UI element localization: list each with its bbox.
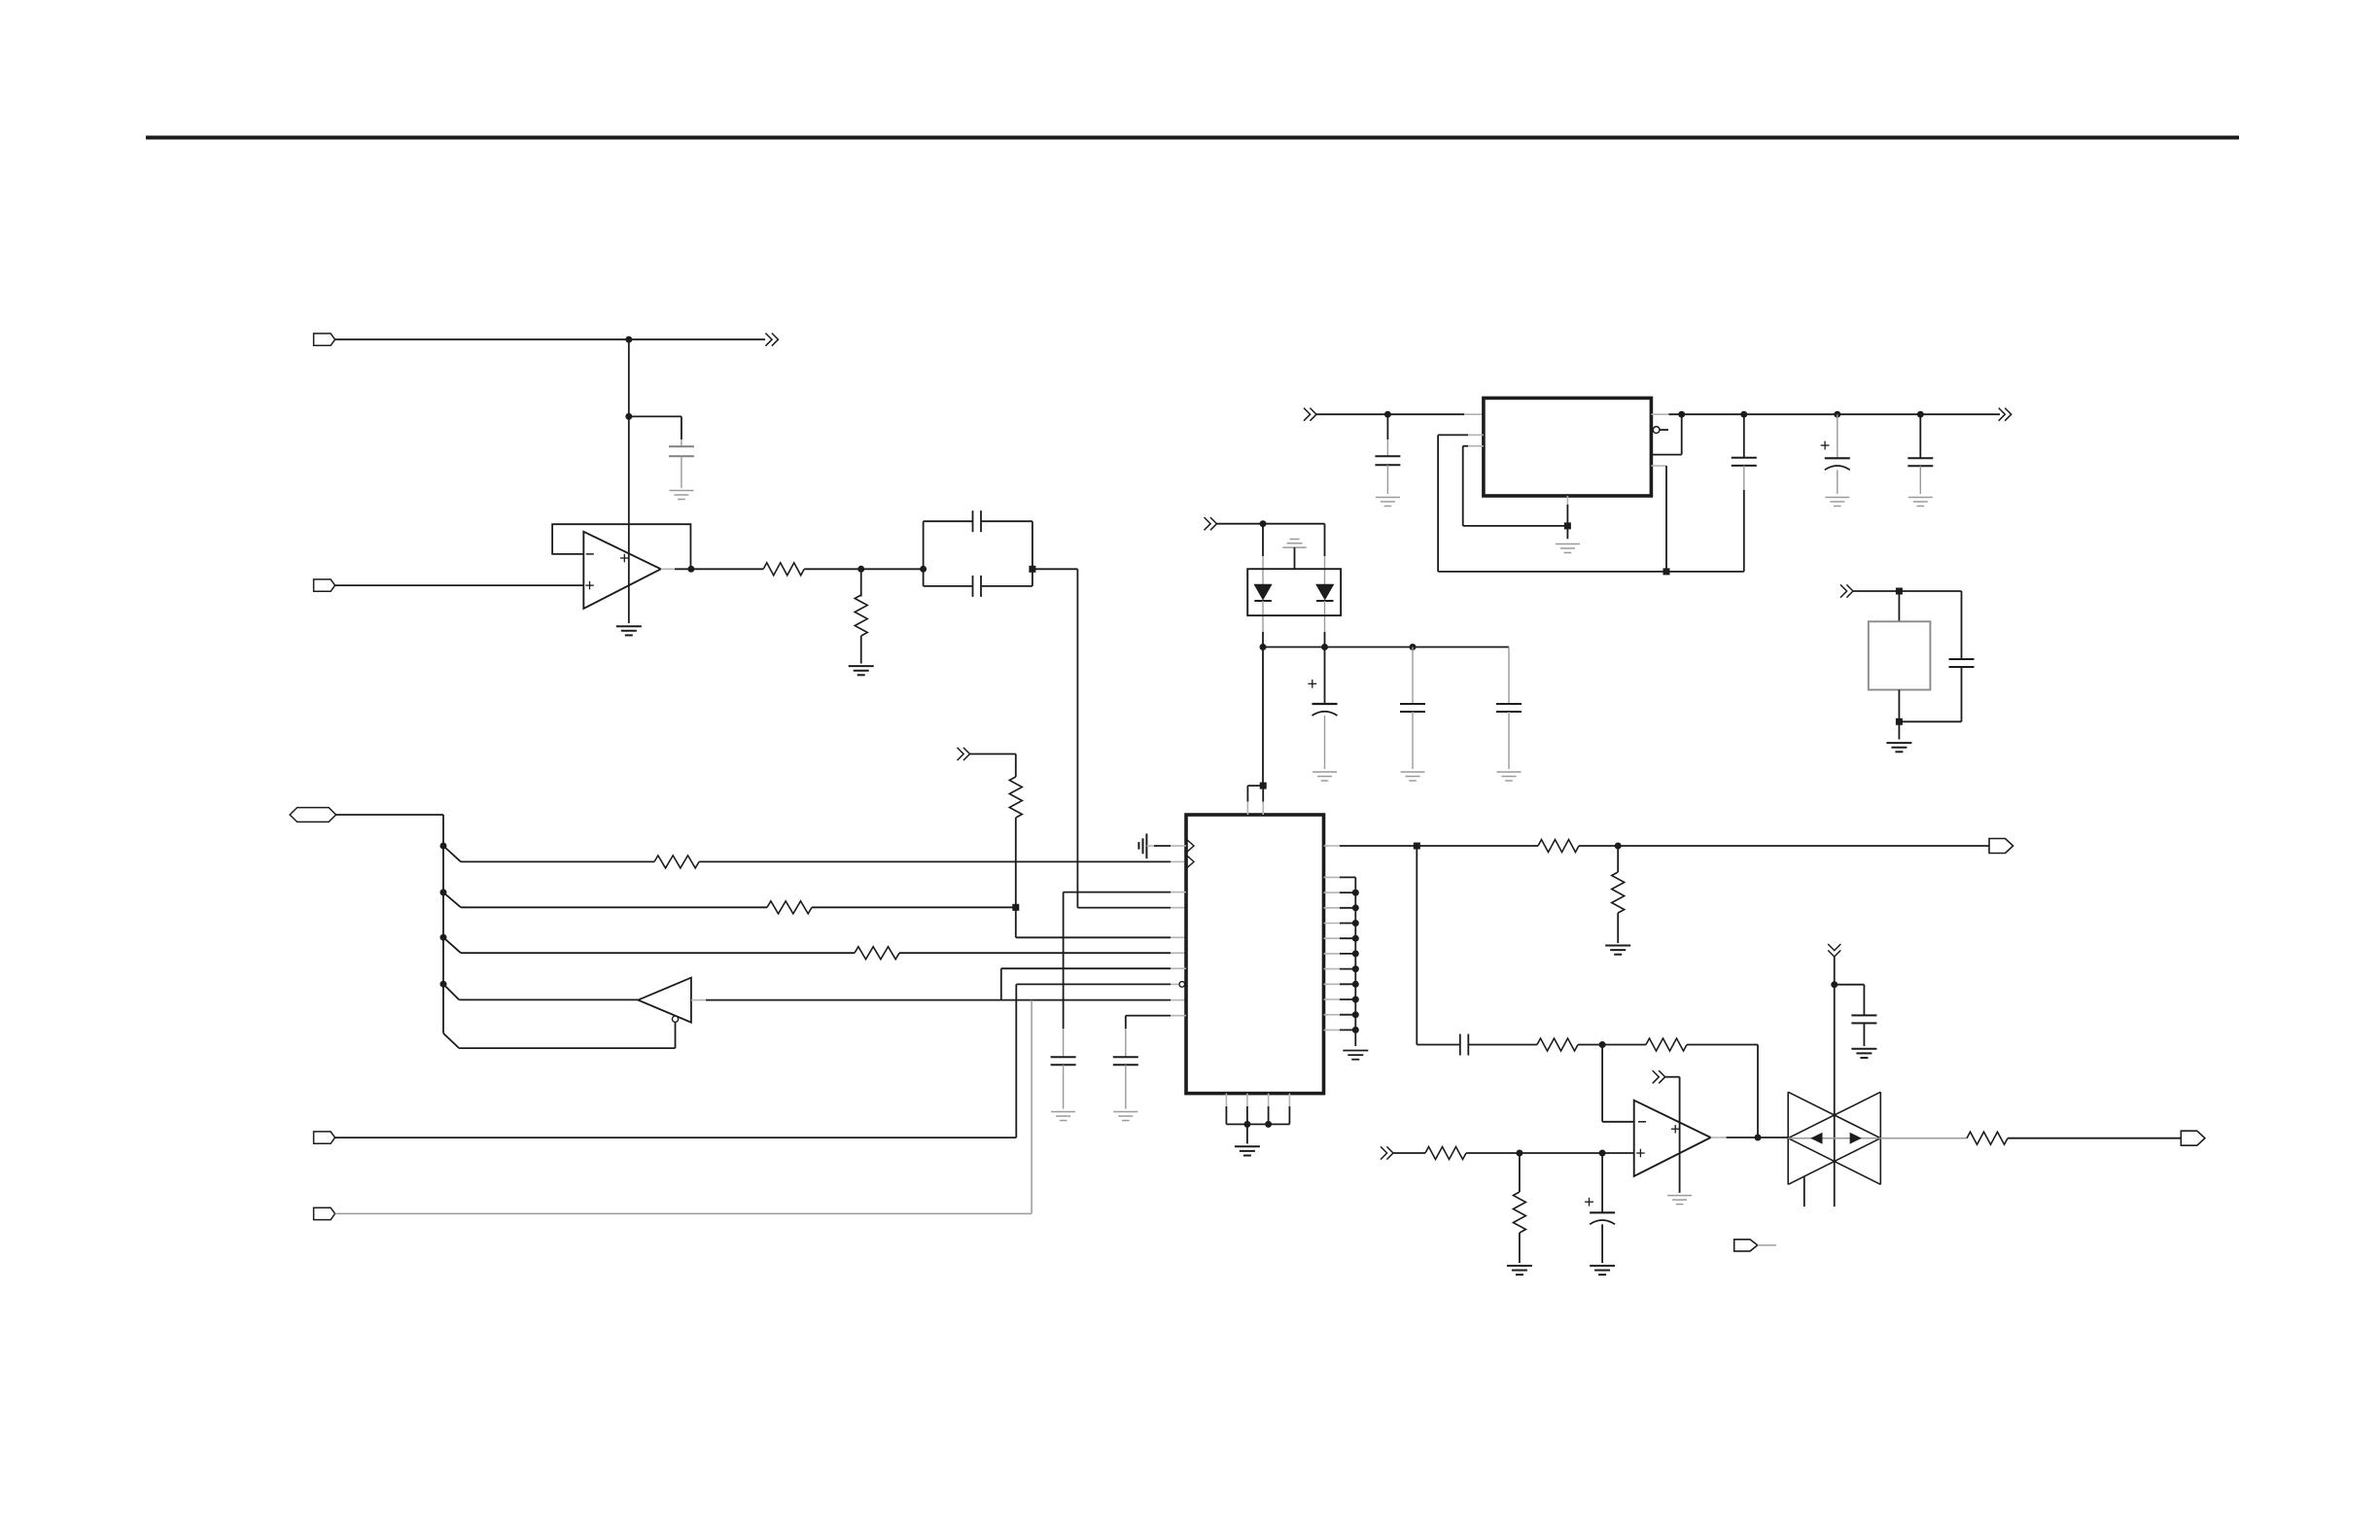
op-amp U5 <box>1634 1101 1711 1176</box>
wire <box>335 338 765 340</box>
wire (branch 4 / buffer output) <box>443 984 459 999</box>
capacitor C11 <box>1961 591 1963 659</box>
op-amp U1 <box>583 532 660 609</box>
node <box>1831 981 1837 988</box>
wire <box>1466 1152 1634 1154</box>
crystal Y1 <box>1869 621 1931 689</box>
resistor R9 <box>1537 1038 1578 1051</box>
connector J7 (output flag) <box>2181 1131 2205 1145</box>
wire <box>860 636 862 664</box>
enable bubble <box>672 1016 678 1022</box>
wire (IC pin 3 to C12) <box>1064 892 1171 893</box>
ground <box>1825 497 1849 499</box>
connector J4 (input flag) <box>314 1132 335 1143</box>
ground <box>1113 1111 1137 1113</box>
ground <box>1051 1111 1075 1113</box>
wire <box>1898 591 1900 621</box>
node <box>1896 588 1903 595</box>
wire <box>1578 1044 1646 1046</box>
wire (U1 output) <box>661 568 675 570</box>
wire <box>1617 913 1619 943</box>
wire <box>1393 1152 1425 1154</box>
off-page arrow (clock) <box>1840 584 1847 597</box>
off-page arrow (op-amp supply) <box>1653 1070 1660 1083</box>
capacitor C14 (series) <box>1459 1034 1461 1056</box>
resistor R11 <box>1425 1147 1466 1160</box>
resistor R1 <box>763 563 804 576</box>
ground (IC) <box>1235 1145 1260 1147</box>
ground <box>669 490 693 492</box>
wire (top supply pins) <box>1246 801 1248 815</box>
wire <box>1665 1076 1680 1078</box>
wire <box>1468 1044 1537 1046</box>
node <box>1384 411 1391 418</box>
resistor R6 <box>1009 777 1022 818</box>
capacitor C7 <box>1386 414 1388 439</box>
wire <box>2008 1137 2181 1139</box>
node <box>857 566 864 573</box>
diode package box <box>1247 569 1341 615</box>
wire (inverting input) <box>1601 1045 1603 1122</box>
node <box>1678 411 1685 418</box>
node <box>687 566 694 573</box>
wire (feedback loop U1) <box>552 524 690 569</box>
connector J6 (output flag) <box>1989 839 2013 854</box>
ground (under U1) <box>616 625 642 627</box>
wire (branch 2) <box>443 892 461 907</box>
wire (lower right pin) <box>1651 465 1666 467</box>
node <box>1352 1011 1359 1018</box>
node <box>1615 843 1622 850</box>
wire <box>1262 524 1264 556</box>
off-page arrow (signal in) <box>1381 1146 1387 1159</box>
page header rule <box>146 136 2239 140</box>
ground (right bus) <box>1343 1050 1368 1052</box>
resistor R3 <box>654 856 699 868</box>
wire <box>1316 413 1464 415</box>
inverted pin bubble (pin 8) <box>1179 982 1185 988</box>
connector J2 (input flag) <box>314 579 335 591</box>
ground (inverted, on package) <box>1290 539 1300 541</box>
diode D1 <box>1254 584 1272 599</box>
clock chevron pin 1 <box>1187 840 1194 852</box>
node <box>920 566 927 573</box>
ground <box>1507 1265 1532 1267</box>
node <box>1896 718 1903 725</box>
wire (IC bottom pins) <box>1225 1094 1227 1106</box>
node <box>1265 1121 1272 1128</box>
node <box>1260 644 1267 650</box>
ground <box>1605 945 1630 947</box>
voltage regulator U3 <box>1484 398 1652 496</box>
node <box>440 889 447 895</box>
wire <box>1758 1244 1776 1246</box>
wire <box>699 860 1171 862</box>
wire <box>1617 846 1619 872</box>
wire (IC pin 10 to C13) <box>1126 1015 1171 1017</box>
off-page arrow (raw supply in) <box>1304 408 1311 421</box>
triac/diac Q1 (bidirectional) <box>1787 1092 1789 1184</box>
capacitor C16 (electrolytic) <box>1601 1153 1603 1212</box>
wire (bus) <box>336 814 443 816</box>
node <box>1352 920 1359 927</box>
off-page arrow (to right) <box>765 333 772 346</box>
node <box>1414 843 1420 850</box>
ground <box>849 665 874 667</box>
node (junction on top wire) <box>625 336 632 343</box>
wire (outer loop) <box>1468 434 1484 436</box>
capacitor C8 <box>1743 414 1745 458</box>
node <box>1243 1121 1250 1128</box>
wire <box>1217 523 1325 525</box>
wire (grey net) <box>335 1212 1032 1214</box>
node <box>1012 904 1019 911</box>
capacitor C6 <box>1508 647 1510 705</box>
capacitor C12 <box>1051 1056 1076 1058</box>
inhibit pin (circle) <box>1653 427 1660 434</box>
node <box>1516 1150 1522 1157</box>
resistor R10 <box>1646 1038 1687 1051</box>
wire <box>629 415 682 417</box>
connector TP1 (test point flag) <box>1734 1240 1758 1251</box>
wire (feedback drop) <box>1416 846 1417 1045</box>
node <box>1352 950 1359 957</box>
resistor R7 <box>1538 840 1579 853</box>
wire (to IC pin 8) <box>335 1137 1017 1138</box>
wire (buffer input, to IC pin 9) <box>691 999 706 1001</box>
buffer U2 (inverting, left-pointing) <box>638 978 691 1023</box>
off-page arrow (supply) <box>1828 944 1840 951</box>
wire <box>1863 1023 1865 1046</box>
clock chevron pin 2 <box>1187 856 1194 867</box>
wire <box>1015 818 1017 937</box>
node <box>1321 644 1328 650</box>
wire <box>1853 590 1962 592</box>
IC U4 (main) <box>1186 815 1324 1094</box>
wire <box>1579 845 1989 847</box>
ground <box>1376 497 1400 499</box>
node <box>440 981 447 988</box>
node <box>1352 935 1359 942</box>
node <box>1740 411 1747 418</box>
wire (enable) <box>675 1022 677 1048</box>
node <box>1755 1135 1762 1141</box>
node <box>1352 997 1359 1003</box>
node <box>1260 520 1267 527</box>
node <box>1564 522 1571 529</box>
wire <box>1898 690 1900 740</box>
wire (supply bus) <box>1263 647 1509 648</box>
wire <box>1835 984 1865 986</box>
wire <box>970 753 1016 755</box>
wire <box>899 952 1171 954</box>
wire (to IC pin 5) <box>1016 936 1171 938</box>
wire <box>812 906 1016 908</box>
resistor R5 <box>855 947 899 960</box>
node <box>1352 965 1359 972</box>
wire (supply drop through op-amp U1) <box>628 339 630 623</box>
connector J1 (input flag, top-left) <box>314 333 335 345</box>
wire (IC right pins to ground bus) <box>1324 876 1340 878</box>
wire <box>860 569 862 596</box>
capacitor C10 <box>1917 411 1924 418</box>
wire <box>1324 524 1326 556</box>
ground (under U5) <box>1667 1195 1692 1197</box>
node <box>1029 566 1035 573</box>
wire (pin 7 jog) <box>1001 967 1171 969</box>
ground <box>1851 1048 1876 1050</box>
wire (U5 output) <box>1711 1137 1727 1138</box>
capacitor C1 <box>681 439 682 446</box>
ground <box>1497 771 1522 773</box>
node <box>440 843 447 850</box>
off-page arrow (input) <box>958 748 964 760</box>
diode D2 <box>1316 584 1334 599</box>
ground <box>1401 771 1425 773</box>
off-page arrow (supply input) <box>1205 517 1211 530</box>
ground <box>1908 497 1933 499</box>
wire <box>1519 1153 1521 1192</box>
wire <box>1687 1044 1758 1046</box>
capacitor C15 <box>1851 1014 1876 1016</box>
resistor R8 <box>1612 872 1625 913</box>
resistor R12 <box>1513 1192 1525 1233</box>
resistor R4 <box>767 901 812 914</box>
node <box>1599 1150 1606 1157</box>
wire (gate stub) <box>1803 1176 1805 1207</box>
ground <box>1886 742 1911 744</box>
connector J3 (bidirectional flag) <box>290 808 336 822</box>
resistor R2 <box>855 595 867 636</box>
capacitor C13 <box>1113 1056 1138 1058</box>
ground <box>1590 1265 1615 1267</box>
wire (output) <box>1880 1137 1967 1139</box>
ground <box>1556 543 1580 545</box>
node <box>440 934 447 941</box>
off-page arrow (regulated out) <box>1999 408 2006 421</box>
wire (sense loop) <box>1681 414 1683 454</box>
wire (supply drop) <box>1834 957 1836 1207</box>
wire (inner loop) <box>1468 445 1484 447</box>
node <box>1260 783 1267 789</box>
capacitor C5 <box>1412 647 1414 705</box>
wire (regulator output) <box>1651 413 1668 415</box>
wire (branch 1) <box>443 846 461 861</box>
node <box>1352 1027 1359 1033</box>
node <box>1663 568 1670 575</box>
node <box>1352 890 1359 896</box>
node <box>625 413 632 420</box>
capacitor C4 (electrolytic) <box>1324 647 1326 705</box>
capacitor C9 (electrolytic) <box>1834 411 1840 418</box>
ground <box>1312 771 1337 773</box>
resistor R13 <box>1967 1132 2008 1144</box>
connector J5 (input flag) <box>314 1207 335 1219</box>
node <box>1410 644 1417 650</box>
node <box>1352 904 1359 911</box>
capacitor pair C2/C3 (parallel network) <box>924 520 973 522</box>
node <box>1599 1041 1606 1048</box>
wire <box>1246 1124 1248 1143</box>
wire <box>1519 1233 1521 1263</box>
wire (branch 3) <box>443 937 461 953</box>
digital-ground symbol (pin 1) <box>1137 842 1139 850</box>
wire (IC pin out, right) <box>1324 845 1340 847</box>
wire <box>804 568 923 570</box>
wire <box>335 584 584 586</box>
wire (to IC pin 4) <box>1032 568 1078 570</box>
node <box>1352 981 1359 988</box>
wire (regulator ground pin) <box>1566 496 1568 505</box>
